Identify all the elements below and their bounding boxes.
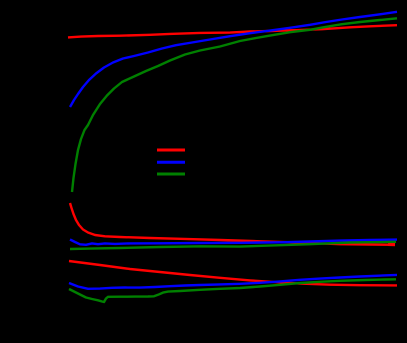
middle subplot red curve (loss) — [70, 203, 395, 245]
legend green line sample — [157, 173, 185, 176]
bottom subplot blue curve (entropy) — [69, 275, 397, 289]
bottom subplot green curve (entropy) — [69, 279, 396, 302]
top subplot green curve (series 3 reward) — [72, 18, 397, 192]
top subplot red curve (series 1 reward) — [68, 25, 397, 37]
bottom subplot red curve (entropy) — [69, 261, 397, 285]
middle subplot red curve end cap — [388, 243, 395, 247]
middle subplot green curve (loss) — [70, 242, 396, 249]
legend red line sample — [157, 149, 185, 152]
legend blue line sample — [157, 161, 185, 164]
middle subplot blue curve (loss) — [70, 240, 397, 245]
top subplot blue curve (series 2 reward) — [70, 12, 397, 107]
